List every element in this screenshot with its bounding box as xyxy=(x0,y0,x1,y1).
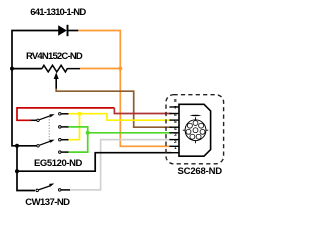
pin number 6 xyxy=(170,114,180,119)
wire: yellow link T1 to T3 xyxy=(69,114,80,140)
wire: green net throws T2/T4 to DIN pin 4 xyxy=(69,127,88,152)
pin number 5 xyxy=(170,121,180,126)
wire: gray net CW137 throw to DIN pin 3 xyxy=(70,140,172,190)
pin 4 xyxy=(169,132,179,134)
label EG5120-ND xyxy=(34,159,82,169)
label SC268-ND xyxy=(178,167,222,177)
throw T4 xyxy=(59,151,62,154)
node: junction left rail / resistor xyxy=(10,67,14,71)
wire: orange net diode cathode to DIN pin 2 xyxy=(78,31,171,147)
pin number 2 xyxy=(170,141,180,146)
wire: dark-red segment to DIN pin 7 xyxy=(114,108,171,114)
mechanical link xyxy=(48,117,50,141)
wire: brown net wiper to DIN pin 5 xyxy=(56,88,171,127)
pin 7 xyxy=(169,113,179,115)
pin number 1 xyxy=(170,147,180,152)
wire: orange resistor right lead to orange rail xyxy=(80,68,120,70)
face center pin xyxy=(193,128,198,133)
pole 1 common lead xyxy=(31,119,37,121)
pole 2 arm xyxy=(40,141,52,145)
pin 5 xyxy=(169,126,179,128)
connector pin stubs xyxy=(169,107,179,153)
connector SC268-ND body xyxy=(179,104,211,156)
key notch xyxy=(190,115,202,116)
throw T2 xyxy=(59,126,62,128)
pole 2 common lead xyxy=(17,145,37,147)
switch EG5120-ND (DPDT) xyxy=(17,113,69,154)
face ring pins xyxy=(193,121,198,126)
throw T3 xyxy=(59,138,62,141)
potentiometer RV4N152C-ND xyxy=(42,65,80,88)
pin number 3 xyxy=(170,134,180,139)
pin 8 xyxy=(169,106,179,108)
wire: resistor left lead to left rail xyxy=(12,68,42,70)
pin number 8 xyxy=(170,100,180,105)
label CW137-ND xyxy=(25,198,69,208)
face ticks xyxy=(195,117,197,119)
pin 2 xyxy=(169,145,179,147)
node: green junction xyxy=(86,131,90,135)
wire: green branch to pin 4 xyxy=(88,132,172,134)
wire: red net pole1 common to DIN pin 7 xyxy=(17,108,114,120)
pin number 7 xyxy=(170,107,180,112)
wire: black top net from diode anode down left side xyxy=(12,31,59,146)
label 641-1310-1-ND xyxy=(30,8,85,18)
diode 641-1310-1-ND xyxy=(58,25,78,36)
node: junction lower rail / pin1 net xyxy=(15,169,19,173)
throw T1 xyxy=(59,113,62,116)
node: junction left rail / pole2 xyxy=(15,144,19,148)
node: yellow junction xyxy=(78,112,82,116)
wire: black lower-left rail to CW137 xyxy=(17,146,35,191)
connector SC268-ND dashed enclosure xyxy=(166,95,224,164)
wire: yellow net throws T1/T3 to DIN pin 6 xyxy=(69,114,172,121)
pin 3 xyxy=(169,139,179,141)
switch CW137-ND (SPST) xyxy=(36,183,70,191)
wire: black net to DIN pin 1 xyxy=(17,153,172,172)
connector DIN face xyxy=(183,115,209,143)
pin 1 xyxy=(169,152,179,154)
node: orange junction xyxy=(118,67,122,71)
pin number 4 xyxy=(170,128,180,133)
pin 6 xyxy=(169,119,179,121)
face outer circle xyxy=(185,120,206,141)
pole 1 arm xyxy=(40,115,52,119)
label RV4N152C-ND xyxy=(26,52,82,62)
